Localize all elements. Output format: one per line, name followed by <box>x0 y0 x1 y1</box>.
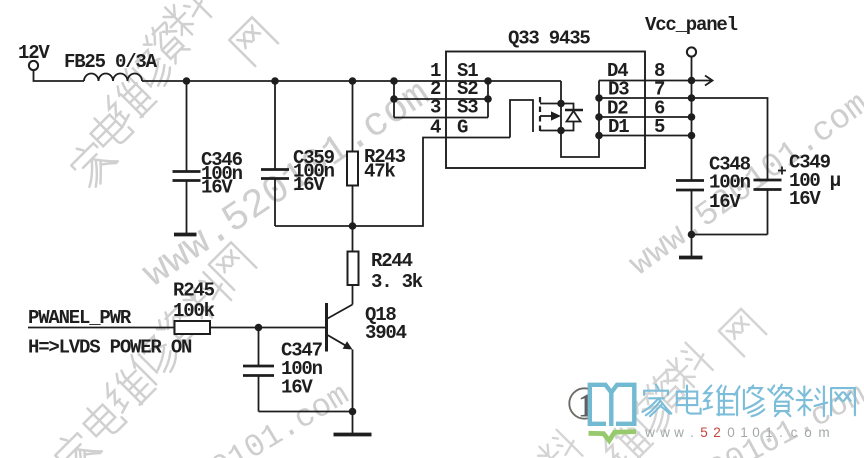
value label C346 100n 16V <box>201 149 243 199</box>
capacitor C346 <box>173 81 201 233</box>
svg-text:5: 5 <box>654 116 665 138</box>
wire PWANEL input <box>28 327 175 329</box>
wire pin D2 line <box>599 116 692 118</box>
svg-text:w: w <box>659 425 670 440</box>
wire source vertical S1 to stubs <box>560 81 562 131</box>
mosfet Q33 gate plate <box>510 100 533 138</box>
wire to ground <box>691 235 693 257</box>
svg-text:3904: 3904 <box>365 322 407 344</box>
junction dot S2 tie <box>484 95 492 103</box>
svg-text:1: 1 <box>765 425 773 440</box>
svg-text:D1: D1 <box>608 116 629 138</box>
svg-text:c: c <box>791 425 798 440</box>
node Vcc_panel terminal <box>687 47 696 56</box>
wire pin D4 line <box>599 80 692 82</box>
svg-text:G: G <box>457 117 468 139</box>
svg-text:w: w <box>673 425 684 440</box>
wire gate node C359/R243 to gate <box>275 138 510 227</box>
svg-text:4: 4 <box>430 117 441 139</box>
svg-text:47k: 47k <box>364 161 395 183</box>
value label R245 100k <box>173 280 215 323</box>
svg-text:0: 0 <box>752 425 760 440</box>
svg-text:3: 3 <box>430 97 441 119</box>
node 12V terminal <box>29 61 38 70</box>
wire Vcc rail vertical <box>691 57 693 180</box>
value label C349 100u 16V <box>789 152 841 211</box>
svg-text:m: m <box>818 425 829 440</box>
svg-text:o: o <box>804 425 812 440</box>
resistor R244 <box>348 226 359 305</box>
wire drain rail <box>598 81 600 136</box>
wire pin7 to C349 <box>692 98 768 179</box>
wire pin S2 line <box>394 98 488 100</box>
junction dot Vcc pin7 <box>688 94 696 102</box>
wire drain loop to D pins <box>561 131 599 158</box>
svg-text:12V: 12V <box>18 42 50 64</box>
svg-text:16V: 16V <box>709 191 741 213</box>
svg-text:3. 3k: 3. 3k <box>371 271 423 293</box>
inductor FB25 <box>84 74 142 82</box>
mosfet Q33 source stub <box>540 103 561 105</box>
wire C347 bottom to emitter node <box>259 411 353 413</box>
junction dot rail/C359 <box>271 77 279 85</box>
svg-text:16V: 16V <box>281 377 313 399</box>
ground below C348 <box>679 256 703 260</box>
wire pin D1 line <box>599 135 692 137</box>
value label R244 3.3k <box>371 250 423 293</box>
svg-text:R244: R244 <box>371 250 413 272</box>
svg-text:H=>LVDS POWER ON: H=>LVDS POWER ON <box>28 337 192 359</box>
junction dot Vcc pin6 <box>688 113 696 121</box>
resistor R243 <box>347 81 358 226</box>
svg-text:PWANEL_PWR: PWANEL_PWR <box>28 307 132 329</box>
wire R245 to Q18 base <box>210 327 327 329</box>
svg-text:.: . <box>690 425 694 440</box>
output arrow at pin8 <box>692 76 713 86</box>
svg-text:1: 1 <box>740 425 748 440</box>
capacitor C359 <box>261 81 289 226</box>
junction dot rail/C346 <box>183 77 191 85</box>
resistor R245 <box>175 321 211 334</box>
value label C348 100n 16V <box>709 154 751 214</box>
svg-text:16V: 16V <box>293 174 325 196</box>
part label Q18 3904 <box>365 304 407 344</box>
wire pin S3 line <box>394 117 488 119</box>
value label C347 100n 16V <box>281 340 323 399</box>
svg-text:5: 5 <box>700 425 708 440</box>
svg-text:2: 2 <box>713 425 721 440</box>
svg-text:0: 0 <box>727 425 735 440</box>
wire 12V terminal to FB25 <box>34 70 85 81</box>
junction dot Vcc pin8 <box>688 77 696 85</box>
junction dot drain D3 <box>595 94 603 102</box>
svg-text:FB25 0/3A: FB25 0/3A <box>64 51 158 73</box>
junction dot C348/C349 ground <box>688 231 696 239</box>
junction dot base/C347 <box>255 324 263 332</box>
ground below C346 <box>174 233 197 237</box>
mosfet Q33 drain stub <box>540 130 561 132</box>
svg-text:100k: 100k <box>173 300 215 322</box>
junction dot R243/R244/gate <box>349 222 357 230</box>
svg-text:R245: R245 <box>173 280 215 302</box>
capacitor C348 <box>676 181 704 235</box>
junction dot rail/S-feed <box>390 77 398 85</box>
body diode of Q33 <box>561 104 583 131</box>
junction dot Vcc pin5 <box>688 132 696 140</box>
IC box Q33 <box>446 52 645 169</box>
value label C359 100n 16V <box>293 147 335 196</box>
mosfet Q33 body stub with arrow <box>540 111 561 120</box>
mosfet Q33 channel <box>539 97 541 135</box>
ground below Q18 emitter <box>334 433 372 437</box>
junction dot S1 tie <box>484 77 492 85</box>
transistor Q18 <box>327 303 353 352</box>
svg-text:16V: 16V <box>789 188 821 210</box>
svg-text:w: w <box>644 425 655 440</box>
wire C349 bottom to ground node <box>692 234 768 236</box>
value label R243 47k <box>364 146 406 183</box>
junction dot rail/R243 <box>349 77 357 85</box>
junction dot drain D2 <box>595 113 603 121</box>
capacitor C349 polarized <box>754 167 787 235</box>
wire main 12V rail <box>142 80 561 82</box>
svg-text:Q33 9435: Q33 9435 <box>508 28 590 50</box>
junction dot emitter node <box>349 408 357 416</box>
wire S1-S2-S3 tie <box>487 81 489 118</box>
wire pin D3 line <box>599 97 692 99</box>
junction dot drain D1 <box>595 132 603 140</box>
svg-text:.: . <box>779 425 783 440</box>
svg-text:S3: S3 <box>457 97 478 119</box>
junction dot S2 feed <box>390 95 398 103</box>
svg-text:Vcc_panel: Vcc_panel <box>645 14 738 36</box>
wire S2 S3 feed vertical <box>393 81 395 118</box>
capacitor C347 <box>243 328 274 412</box>
wire emitter down <box>352 350 354 434</box>
junction dot drain stub <box>557 127 565 135</box>
svg-text:16V: 16V <box>201 177 233 199</box>
junction dot source stub <box>557 100 565 108</box>
